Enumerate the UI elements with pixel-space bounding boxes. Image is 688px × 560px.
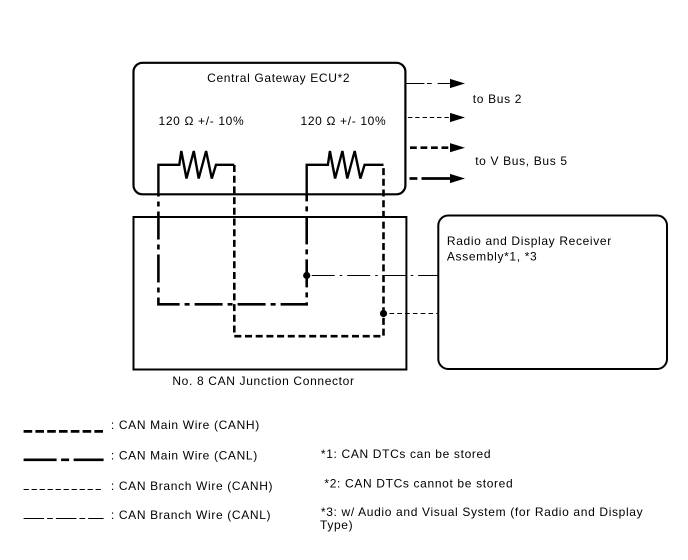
arrow bus (thin dashed) xyxy=(408,117,451,119)
svg-text:120 Ω +/- 10%: 120 Ω +/- 10% xyxy=(159,114,245,128)
No. 8 CAN Junction Connector box J1 xyxy=(134,217,407,370)
svg-text:No. 8 CAN Junction Connector: No. 8 CAN Junction Connector xyxy=(172,374,354,388)
svg-text:: CAN Branch Wire (CANL): : CAN Branch Wire (CANL) xyxy=(111,508,271,522)
svg-text:Type): Type) xyxy=(320,518,353,532)
legend swatch CAN Branch Wire CANL (thin dash-dot) xyxy=(24,518,104,520)
legend swatch CAN Main Wire CANH (heavy dashed) xyxy=(24,430,103,433)
Central Gateway ECU box U1 xyxy=(134,63,406,195)
svg-text:to Bus 2: to Bus 2 xyxy=(473,92,522,106)
resistor R-right (120 ohm) with solid left leg xyxy=(307,151,384,196)
wire CAN Main CANH: heavy dashed U from left resistor right leg to right resistor right leg xyxy=(234,165,383,336)
legend swatch CAN Main Wire CANL (heavy dash-dot) xyxy=(24,458,104,461)
node A junction dot on CANL xyxy=(303,272,310,279)
svg-text:to V Bus, Bus 5: to V Bus, Bus 5 xyxy=(475,154,567,168)
wire CAN Main CANL: heavy dash-dot U from left resistor left leg to right resistor left leg xyxy=(158,195,306,304)
svg-text:: CAN Main Wire (CANL): : CAN Main Wire (CANL) xyxy=(111,448,258,462)
wire CAN Branch CANH: thin dashed from node B to radio box xyxy=(384,313,439,315)
svg-text:: CAN Branch Wire (CANH): : CAN Branch Wire (CANH) xyxy=(111,479,273,493)
svg-text:*2: CAN DTCs cannot be stored: *2: CAN DTCs cannot be stored xyxy=(324,477,513,491)
svg-text:Central Gateway ECU*2: Central Gateway ECU*2 xyxy=(207,71,350,85)
svg-text:Assembly*1, *3: Assembly*1, *3 xyxy=(447,250,537,264)
Radio and Display Receiver Assembly box U2 xyxy=(438,216,667,370)
svg-text:120 Ω +/- 10%: 120 Ω +/- 10% xyxy=(301,114,387,128)
svg-text:*1: CAN DTCs can be stored: *1: CAN DTCs can be stored xyxy=(321,447,491,461)
svg-text:*3: w/ Audio and Visual System: *3: w/ Audio and Visual System (for Radi… xyxy=(321,505,643,519)
svg-text:Radio and Display Receiver: Radio and Display Receiver xyxy=(447,234,612,248)
node B junction dot on CANH xyxy=(380,310,387,317)
wire CAN Branch CANL: thin dash-dot from node A to radio box xyxy=(307,275,439,277)
resistor R-left (120 ohm) with solid left leg xyxy=(158,151,234,196)
legend swatch CAN Branch Wire CANH (thin dashed) xyxy=(24,489,103,491)
arrow to Bus 2 (thin dash-dot) xyxy=(405,83,451,85)
arrow to V Bus (heavy dashed) xyxy=(410,146,451,149)
svg-text:: CAN Main Wire (CANH): : CAN Main Wire (CANH) xyxy=(111,418,260,432)
arrow bus 5 (heavy dash then solid) xyxy=(410,177,418,180)
